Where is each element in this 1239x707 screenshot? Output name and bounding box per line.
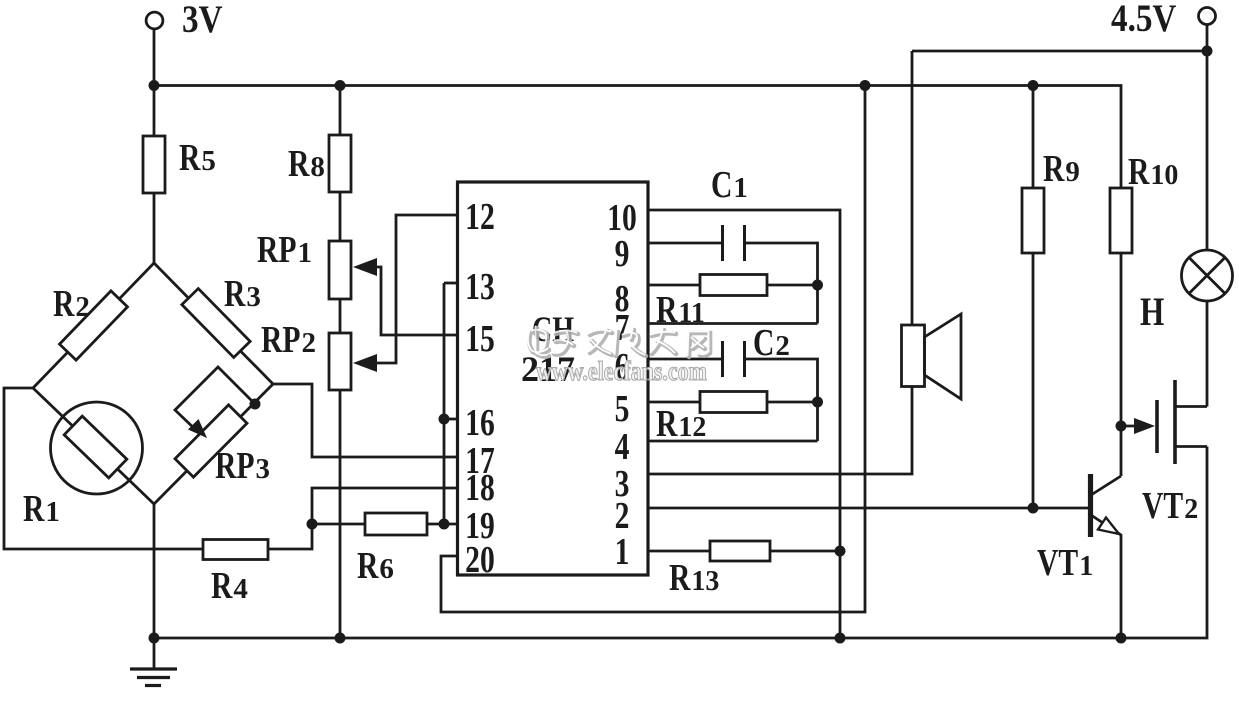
node junction bus-R8 bbox=[336, 81, 344, 89]
op-amp U1 IC CH217 box bbox=[458, 182, 649, 575]
node junction 3V-R5 bbox=[150, 81, 158, 89]
svg-text:8: 8 bbox=[310, 151, 325, 183]
wire pin7 bbox=[647, 322, 818, 325]
wire R6 right lead pin19 bbox=[427, 523, 459, 526]
node junction VT2 gate bbox=[1117, 422, 1125, 430]
pin number 8 bbox=[615, 279, 630, 320]
wire VT2 gate bbox=[1121, 425, 1150, 428]
resistor R6 bbox=[365, 513, 427, 535]
svg-text:16: 16 bbox=[465, 403, 495, 444]
node junction pin16 bbox=[440, 415, 448, 423]
wire R11 left lead pin8 bbox=[647, 284, 700, 287]
pin number 10 bbox=[607, 198, 637, 239]
speaker BL horn bbox=[925, 314, 962, 399]
svg-text:3V: 3V bbox=[182, 0, 223, 41]
resistor R4 bbox=[203, 540, 268, 560]
node junction R4-R6-pin18 bbox=[308, 520, 316, 528]
transistor VT2 channel bar bbox=[1173, 380, 1177, 464]
transistor VT1 emitter bbox=[1091, 515, 1121, 638]
capacitor C1 bbox=[723, 225, 745, 261]
svg-text:13: 13 bbox=[465, 267, 495, 308]
svg-text:RP: RP bbox=[215, 446, 254, 487]
label 4.5V bbox=[1111, 0, 1176, 40]
wire pin13 stub bbox=[444, 282, 459, 285]
svg-text:R: R bbox=[211, 566, 233, 607]
svg-text:2: 2 bbox=[775, 330, 790, 362]
label RP2 bbox=[261, 320, 316, 361]
resistor R5 bbox=[143, 136, 165, 193]
potentiometer RP2 body bbox=[329, 333, 351, 390]
svg-text:11: 11 bbox=[678, 298, 704, 329]
svg-text:C: C bbox=[711, 165, 732, 206]
label R11 bbox=[656, 290, 705, 331]
wire RP2 down to ground bus bbox=[339, 390, 342, 638]
pin number 6 bbox=[615, 347, 630, 388]
svg-text:12: 12 bbox=[678, 412, 706, 443]
svg-text:4: 4 bbox=[615, 427, 630, 468]
svg-text:1: 1 bbox=[615, 532, 630, 573]
arrow RP3 wiper bbox=[188, 419, 207, 438]
watermark url bbox=[536, 356, 707, 386]
arrow RP1 wiper bbox=[353, 258, 377, 276]
wire pin3 to speaker bbox=[647, 387, 912, 475]
node junction bus-R13net bbox=[836, 634, 844, 642]
svg-text:6: 6 bbox=[379, 553, 394, 585]
thermistor R1 circle bbox=[51, 402, 143, 494]
label R5 bbox=[179, 138, 216, 179]
pin number 19 bbox=[465, 506, 495, 547]
resistor R2 bbox=[60, 291, 128, 360]
wire R12 right lead bbox=[767, 401, 818, 404]
label VT1 bbox=[1037, 543, 1093, 584]
pin number 13 bbox=[465, 267, 495, 308]
svg-text:20: 20 bbox=[465, 540, 495, 581]
ground bbox=[130, 638, 177, 686]
node junction R9-pin2 bbox=[1029, 504, 1037, 512]
thermistor R1 body bbox=[64, 416, 127, 478]
svg-text:R: R bbox=[656, 404, 678, 445]
resistor R8 bbox=[329, 135, 351, 192]
svg-text:4.5V: 4.5V bbox=[1111, 0, 1176, 40]
wire R8 to RP1 bbox=[339, 192, 342, 241]
label R4 bbox=[211, 566, 248, 607]
pin number 12 bbox=[465, 197, 495, 238]
label R12 bbox=[656, 404, 706, 445]
pin number 5 bbox=[615, 389, 630, 430]
wire C2 right lead bbox=[745, 359, 818, 441]
label R9 bbox=[1043, 149, 1080, 190]
label R10 bbox=[1128, 152, 1178, 193]
arrow VT2 gate bbox=[1134, 418, 1155, 434]
resistor R9 bbox=[1022, 188, 1044, 253]
svg-text:15: 15 bbox=[465, 319, 495, 360]
arrow VT1 emitter open bbox=[1098, 518, 1119, 535]
svg-text:R: R bbox=[357, 546, 379, 587]
wire pin13-pin16-pin19 vertical bbox=[443, 283, 446, 524]
node junction C2-R12 bbox=[813, 398, 821, 406]
node junction 4.5V bus bbox=[1203, 47, 1211, 55]
wire R10 bottom to VT1 collector bbox=[1120, 253, 1123, 476]
svg-text:1: 1 bbox=[1079, 551, 1093, 582]
wire top 3V bus bbox=[154, 86, 1121, 189]
svg-text:R: R bbox=[669, 558, 691, 599]
pin number 16 bbox=[465, 403, 495, 444]
transistor VT2 drain lead bbox=[1175, 405, 1207, 408]
resistor R10 bbox=[1110, 188, 1132, 253]
wire R9 bottom to pin2 line bbox=[1032, 253, 1035, 508]
pin number 3 bbox=[615, 464, 630, 505]
node junction ground bbox=[150, 634, 158, 642]
wire pin10 to right vertical bbox=[647, 210, 840, 638]
node junction bus-RP2chain bbox=[336, 634, 344, 642]
svg-text:R: R bbox=[23, 489, 45, 530]
svg-text:VT: VT bbox=[1037, 543, 1078, 584]
wire bridge upper-left branch bbox=[33, 263, 154, 388]
watermark chinese characters bbox=[528, 327, 710, 358]
svg-text:www.elecfans.com: www.elecfans.com bbox=[536, 356, 707, 386]
potentiometer RP3 body bbox=[175, 405, 247, 477]
pin number 9 bbox=[615, 234, 630, 275]
node RP3 wiper junction bbox=[251, 400, 259, 408]
svg-text:RP: RP bbox=[257, 230, 296, 271]
node junction bus-pin20wrap bbox=[861, 81, 869, 89]
wire left vertex wrap to R4 bbox=[4, 388, 203, 549]
label R3 bbox=[224, 274, 261, 315]
svg-text:5: 5 bbox=[615, 389, 630, 430]
wire R11 right lead bbox=[767, 284, 818, 287]
svg-text:13: 13 bbox=[691, 566, 719, 597]
pin number 15 bbox=[465, 319, 495, 360]
label VT2 bbox=[1142, 486, 1198, 527]
label H bbox=[1140, 289, 1164, 334]
pin number 4 bbox=[615, 427, 630, 468]
wire RP3 wiper loop bbox=[175, 367, 255, 432]
wire R5 top lead bbox=[153, 86, 156, 137]
pin number 2 bbox=[615, 496, 630, 537]
svg-text:18: 18 bbox=[465, 468, 495, 509]
svg-text:2: 2 bbox=[75, 291, 90, 323]
svg-text:R: R bbox=[179, 138, 201, 179]
svg-text:R: R bbox=[288, 144, 310, 185]
potentiometer RP1 body bbox=[329, 241, 351, 299]
wire R5 bottom lead bbox=[153, 193, 156, 263]
wire 4.5V bus bbox=[912, 50, 1207, 53]
wire ground bus bbox=[154, 447, 1207, 639]
label RP1 bbox=[257, 230, 312, 271]
resistor R12 bbox=[700, 392, 767, 413]
svg-text:VT: VT bbox=[1142, 486, 1183, 527]
svg-text:2: 2 bbox=[302, 327, 317, 359]
wire speaker feed from 4.5V bus bbox=[911, 51, 914, 325]
wire pin2 to VT1 base bbox=[647, 507, 1089, 510]
node junction R13-vertical bbox=[836, 547, 844, 555]
svg-text:R: R bbox=[224, 274, 246, 315]
svg-text:5: 5 bbox=[201, 145, 216, 177]
wire RP1 wiper to pin15 bbox=[357, 267, 459, 335]
label IC 217 bbox=[521, 349, 575, 389]
wire RP1 to RP2 bbox=[339, 299, 342, 333]
wire bridge lower-right branch bbox=[154, 384, 273, 504]
svg-text:1: 1 bbox=[733, 172, 748, 204]
svg-text:9: 9 bbox=[615, 234, 630, 275]
wire bridge bottom to ground bus bbox=[153, 504, 156, 638]
label C2 bbox=[753, 323, 790, 364]
svg-text:2: 2 bbox=[1184, 494, 1198, 525]
wire R9 top lead bbox=[1032, 86, 1035, 189]
wire R6 left lead bbox=[312, 523, 365, 526]
wire pin18 to junction bbox=[312, 488, 459, 524]
speaker BL box bbox=[902, 325, 925, 387]
svg-text:12: 12 bbox=[465, 197, 495, 238]
svg-text:9: 9 bbox=[1065, 156, 1080, 188]
wire pin16 stub bbox=[444, 418, 459, 421]
wire R8 top lead bbox=[339, 86, 342, 136]
pin number 17 bbox=[465, 441, 495, 482]
label 3V bbox=[182, 0, 223, 41]
capacitor C2 bbox=[723, 341, 745, 377]
label R2 bbox=[53, 284, 90, 325]
wire pin6 C2 left lead bbox=[647, 358, 723, 361]
terminal 3V bbox=[146, 12, 163, 29]
svg-text:R: R bbox=[53, 284, 75, 325]
pin number 18 bbox=[465, 468, 495, 509]
pin number 1 bbox=[615, 532, 630, 573]
node junction C1-R11 bbox=[813, 281, 821, 289]
wire 3V drop bbox=[153, 29, 156, 86]
wire R13 left lead pin1 bbox=[647, 550, 710, 553]
svg-text:3: 3 bbox=[246, 281, 261, 313]
svg-text:1: 1 bbox=[45, 496, 60, 528]
wire pin9 C1 left lead bbox=[647, 242, 723, 245]
svg-text:1: 1 bbox=[298, 237, 313, 269]
resistor R13 bbox=[710, 541, 770, 561]
node junction pin19 bbox=[440, 520, 448, 528]
svg-text:C: C bbox=[753, 323, 774, 364]
svg-text:RP: RP bbox=[261, 320, 300, 361]
transistor VT1 base bar bbox=[1088, 474, 1093, 537]
wire bridge upper-right branch bbox=[154, 263, 273, 384]
label R6 bbox=[357, 546, 394, 587]
label R1 bbox=[23, 489, 60, 530]
svg-text:10: 10 bbox=[1150, 160, 1178, 191]
wire pin4 bbox=[647, 440, 818, 443]
transistor VT1 collector bbox=[1091, 476, 1121, 495]
label IC CH bbox=[532, 309, 574, 349]
transistor VT2 gate bar bbox=[1155, 400, 1159, 453]
resistor R11 bbox=[700, 275, 767, 296]
label RP3 bbox=[215, 446, 270, 487]
wire pin12 to RP2 wiper bbox=[357, 215, 459, 363]
svg-text:R: R bbox=[656, 290, 678, 331]
pin number 7 bbox=[615, 308, 630, 349]
label C1 bbox=[711, 165, 748, 206]
node junction bus-VT1emitter bbox=[1117, 634, 1125, 642]
svg-text:R: R bbox=[1128, 152, 1150, 193]
pin number 20 bbox=[465, 540, 495, 581]
svg-text:R: R bbox=[1043, 149, 1065, 190]
node junction bus-R9 bbox=[1029, 81, 1037, 89]
wire pin17 to bridge right vertex bbox=[273, 384, 459, 457]
wire bridge lower-left branch bbox=[33, 388, 154, 504]
wire R13 right lead bbox=[770, 550, 840, 553]
arrow RP2 wiper bbox=[353, 354, 377, 372]
terminal 4.5V bbox=[1199, 8, 1216, 25]
svg-text:4: 4 bbox=[233, 573, 248, 605]
label R13 bbox=[669, 558, 719, 599]
resistor R3 bbox=[182, 289, 250, 358]
wire R12 left lead pin5 bbox=[647, 401, 700, 404]
wire pin20 supply wrap bbox=[441, 86, 865, 613]
wire lamp to VT2 drain bbox=[1206, 301, 1209, 407]
transistor VT2 source lead bbox=[1175, 445, 1207, 448]
wire 4.5V drop to lamp bbox=[1206, 25, 1209, 251]
wire C1 right lead bbox=[745, 243, 818, 324]
lamp H bbox=[1182, 250, 1233, 301]
wire R4 right lead bbox=[268, 524, 312, 549]
svg-text:3: 3 bbox=[256, 453, 271, 485]
label R8 bbox=[288, 144, 325, 185]
svg-text:H: H bbox=[1140, 289, 1164, 334]
